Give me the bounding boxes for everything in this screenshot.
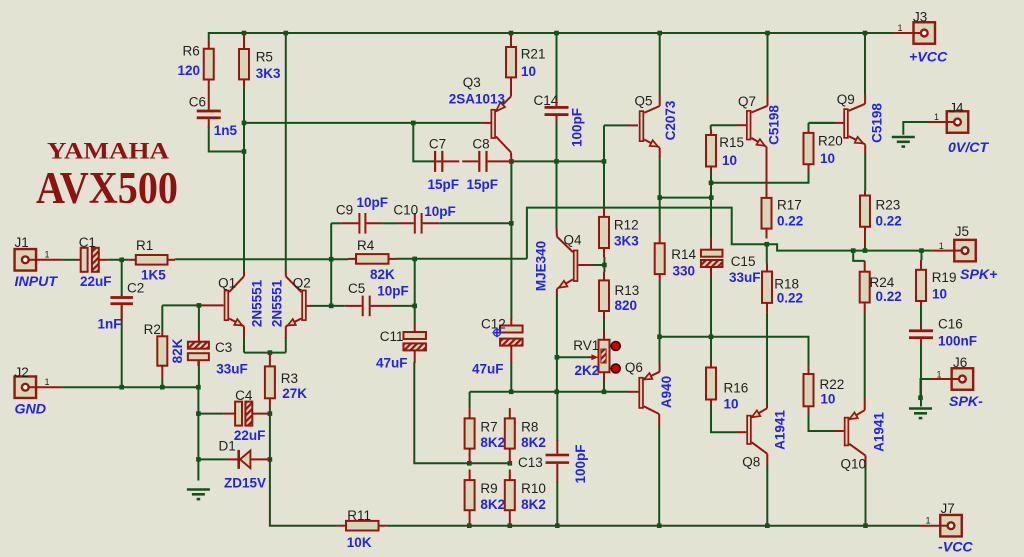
- wire Q4 collector column: [556, 161, 558, 228]
- resistor R24: [860, 261, 870, 314]
- lead Q10 base: [834, 430, 844, 432]
- node junction at 244,151.5: [242, 149, 247, 154]
- lead Q10 emitter top: [864, 398, 866, 410]
- lead Q8 base: [737, 431, 747, 433]
- svg-text:820: 820: [615, 298, 638, 313]
- svg-text:1nF: 1nF: [98, 317, 122, 332]
- wire C9 tap column: [330, 223, 332, 306]
- svg-text:R22: R22: [820, 377, 845, 392]
- wire R23 top to Q9 emitter: [864, 154, 866, 191]
- wire C11 bottom to R7R8 row: [414, 362, 510, 463]
- node junction at 509.8,525.7: [508, 523, 513, 528]
- resistor R16: [706, 362, 716, 406]
- resistor R10: [505, 470, 515, 526]
- node junction at 604,161.4: [602, 159, 607, 164]
- svg-text:A940: A940: [659, 376, 674, 408]
- wire -VCC bus: [387, 525, 919, 527]
- node junction at 711.3,197.6: [709, 195, 714, 200]
- lead Q5 emitter: [659, 148, 661, 157]
- node junction at 244,33: [242, 31, 247, 36]
- capacitor C13: [546, 454, 570, 464]
- lead Q2 collector: [285, 271, 287, 276]
- lead C10: [398, 222, 414, 224]
- svg-text:0.22: 0.22: [777, 214, 803, 229]
- wire Q2 emitter drop: [285, 337, 287, 353]
- capacitor C7: [434, 151, 443, 172]
- node junction at 865,250.6: [863, 248, 868, 253]
- svg-text:1: 1: [926, 516, 931, 526]
- wire R19 to C16: [920, 306, 922, 327]
- svg-text:C2073: C2073: [663, 100, 678, 140]
- wire Q1 emitter drop: [243, 337, 245, 353]
- svg-text:MJE340: MJE340: [534, 241, 549, 291]
- wire C13 top link: [556, 392, 558, 441]
- svg-text:3K3: 3K3: [614, 234, 639, 249]
- svg-text:C2: C2: [127, 280, 144, 295]
- svg-text:8K2: 8K2: [521, 435, 546, 450]
- resistor R9: [465, 470, 475, 526]
- transistor Q8: [747, 408, 767, 454]
- connector J5: [954, 240, 976, 262]
- resistor R11: [338, 521, 387, 531]
- wire R13 to RV1: [603, 319, 605, 333]
- wire J4 link: [903, 122, 928, 135]
- svg-text:Q9: Q9: [837, 92, 855, 107]
- node junction at 469.3,463.3: [467, 461, 472, 466]
- lead Q1 base: [202, 304, 224, 306]
- svg-text:R2: R2: [144, 322, 161, 337]
- wire C1 to R1 with C2 tap: [108, 259, 128, 261]
- ground symbol at D1 node: [187, 490, 210, 500]
- wire RV1 wiper link: [557, 356, 590, 358]
- svg-text:+VCC: +VCC: [909, 49, 948, 65]
- resistor R1: [128, 255, 175, 265]
- svg-text:R7: R7: [480, 420, 497, 435]
- node junction at 766.8,244.2: [765, 242, 770, 247]
- lead J5: [932, 250, 955, 252]
- lead Q9 base: [836, 122, 844, 124]
- lead C5: [345, 305, 362, 307]
- node junction at 604.4,265: [602, 263, 607, 268]
- svg-text:R13: R13: [615, 283, 640, 298]
- node junction at 331.2,305.9: [329, 304, 334, 309]
- wire Q9 base corner: [809, 122, 836, 124]
- svg-text:10pF: 10pF: [424, 204, 456, 219]
- svg-text:Q5: Q5: [635, 94, 653, 109]
- wire RV1 bottom: [603, 381, 605, 392]
- lead J3: [894, 32, 913, 34]
- ground symbol at J4: [892, 137, 915, 147]
- potentiometer RV1: [590, 332, 610, 382]
- wire Q5 base column: [603, 125, 605, 206]
- lead C4: [223, 413, 235, 415]
- svg-text:C7: C7: [429, 136, 446, 151]
- capacitor C9: [358, 213, 366, 234]
- node junction at 865.5,525.7: [863, 523, 868, 528]
- svg-text:82K: 82K: [170, 338, 185, 363]
- node junction at 285.8,33: [284, 31, 289, 36]
- node junction at 269.9,459.4: [268, 457, 273, 462]
- wire Q8 collector to -VCC bus: [766, 464, 768, 525]
- svg-text:SPK-: SPK-: [949, 394, 983, 410]
- wire VAS output row: [527, 208, 921, 259]
- node junction at 198.4,459.4: [196, 457, 201, 462]
- node junction at 162.3,387.2: [160, 385, 165, 390]
- lead Q7 emitter: [766, 147, 768, 193]
- svg-text:A1941: A1941: [872, 412, 887, 452]
- transistor Q9: [844, 104, 865, 145]
- wire R14 bottom to driver row: [659, 282, 661, 337]
- resistor R12: [599, 208, 609, 257]
- capacitor C14: [545, 106, 569, 116]
- svg-text:R21: R21: [521, 47, 546, 62]
- svg-text:10: 10: [932, 286, 947, 301]
- wire J6 link: [921, 379, 931, 398]
- wire C9-C10 mid: [382, 222, 397, 224]
- lead C11: [414, 323, 416, 332]
- wire Q4 base link: [592, 264, 604, 266]
- svg-text:8K2: 8K2: [480, 497, 505, 512]
- lead Q7 collector: [767, 95, 769, 106]
- wire C10 to Miller column: [439, 222, 511, 224]
- wire Q5 base horizontal: [604, 124, 629, 126]
- lead Q3 collector: [510, 152, 512, 161]
- transistor Q6: [639, 372, 659, 414]
- svg-text:0.22: 0.22: [876, 214, 902, 229]
- node junction at 511,33: [509, 31, 514, 36]
- wire R2 corner: [161, 305, 163, 332]
- svg-text:C13: C13: [518, 455, 543, 470]
- svg-text:2K2: 2K2: [575, 363, 600, 378]
- svg-text:33uF: 33uF: [729, 270, 761, 285]
- capacitor C5: [362, 296, 371, 317]
- svg-text:2N5551: 2N5551: [270, 279, 285, 327]
- node junction at 853.2,250.6: [851, 248, 856, 253]
- lead Q10 collector: [865, 456, 867, 467]
- wire Q6 emitter up link: [659, 337, 661, 364]
- transistor Q10: [845, 410, 866, 455]
- svg-text:100pF: 100pF: [573, 444, 588, 483]
- svg-text:GND: GND: [15, 402, 47, 418]
- lead C8: [462, 160, 478, 162]
- node junction at 711,182.8: [709, 181, 714, 186]
- lead Q4 emitter: [556, 289, 558, 295]
- capacitor C16: [909, 329, 933, 339]
- wire +VCC drop to Q2 collector: [285, 33, 287, 272]
- wire Q10 collector to -VCC bus: [865, 466, 867, 526]
- wire input signal row: [62, 259, 77, 261]
- svg-text:R20: R20: [818, 134, 843, 149]
- wire J5 link: [921, 250, 932, 252]
- node junction at 659.5,336.75: [657, 334, 662, 339]
- diode D1 (zener ZD15V): [228, 450, 270, 469]
- node junction at 469.3,525.7: [467, 523, 472, 528]
- wire R16 to Q8 base: [711, 405, 737, 432]
- node junction at 198.4,413.6: [196, 411, 201, 416]
- node junction at 244,122.9: [242, 121, 247, 126]
- wire Miller column (Q3 col to C12): [510, 161, 512, 319]
- svg-text:0.22: 0.22: [777, 290, 803, 305]
- svg-text:SPK+: SPK+: [960, 267, 997, 283]
- svg-text:47uF: 47uF: [472, 362, 504, 377]
- svg-text:R4: R4: [357, 238, 375, 253]
- capacitor C11 (electrolytic): [403, 332, 426, 350]
- wire C2 column: [121, 260, 123, 296]
- wire R23 bottom link: [864, 246, 866, 251]
- svg-text:82K: 82K: [370, 267, 395, 282]
- wire C14 top drop: [556, 33, 558, 101]
- svg-text:C12: C12: [481, 317, 506, 332]
- svg-text:33uF: 33uF: [216, 362, 248, 377]
- svg-text:330: 330: [673, 263, 696, 278]
- connector J7: [940, 515, 962, 537]
- svg-text:Q6: Q6: [625, 360, 643, 375]
- wire Q2 base horizontal: [310, 305, 345, 307]
- svg-text:C15: C15: [731, 254, 756, 269]
- node junction at 414.7,258.9: [412, 257, 417, 262]
- capacitor C8: [478, 151, 487, 172]
- svg-text:C5198: C5198: [870, 103, 885, 143]
- svg-text:R23: R23: [876, 197, 901, 212]
- wire Q9 collector to rail: [864, 33, 866, 95]
- lead Q8 collector: [766, 454, 768, 465]
- svg-text:R3: R3: [281, 371, 298, 386]
- wire R4 to VAS Z-link: [397, 258, 527, 260]
- node junction at 414.7,305.9: [412, 304, 417, 309]
- wire R20 base corner: [809, 122, 836, 124]
- wire R22 to Q10 base: [809, 414, 835, 431]
- wire R7 top corner: [469, 392, 471, 408]
- lead C15: [710, 239, 712, 250]
- svg-text:8K2: 8K2: [480, 435, 505, 450]
- wire R24 to Q10 emitter: [864, 314, 866, 399]
- node junction at 711,336.75: [709, 334, 714, 339]
- lead C1: [78, 259, 81, 261]
- lead Q5 collector: [659, 95, 661, 107]
- svg-text:2SA1013: 2SA1013: [449, 92, 506, 107]
- transistor Q5: [640, 106, 660, 148]
- svg-text:Q4: Q4: [564, 233, 583, 248]
- svg-text:Q7: Q7: [738, 94, 756, 109]
- svg-text:1: 1: [939, 241, 944, 251]
- svg-text:J7: J7: [941, 501, 955, 516]
- svg-text:47uF: 47uF: [376, 355, 408, 370]
- wire GND bus: [62, 386, 198, 388]
- RV1 terminal dot bottom: [611, 364, 620, 373]
- capacitor C15 (electrolytic): [701, 250, 723, 267]
- svg-text:22uF: 22uF: [234, 428, 266, 443]
- lead Q6 emitter top: [659, 364, 661, 372]
- lead Q8 emitter top: [766, 404, 768, 408]
- lead Q7 base: [737, 124, 747, 126]
- svg-text:J5: J5: [955, 224, 969, 239]
- node junction at 198.4,387.2: [196, 385, 201, 390]
- svg-text:10: 10: [722, 153, 737, 168]
- lead C6: [208, 88, 210, 110]
- lead J6: [931, 378, 952, 380]
- svg-text:Q3: Q3: [463, 75, 481, 90]
- svg-text:Q8: Q8: [742, 455, 760, 470]
- svg-text:R11: R11: [347, 508, 371, 523]
- svg-text:R5: R5: [256, 50, 273, 65]
- wire R18 top link: [766, 244, 768, 263]
- resistor R20: [804, 129, 814, 173]
- resistor R18: [762, 264, 772, 313]
- svg-text:1: 1: [934, 112, 939, 122]
- wire Q6 collector to -VCC bus: [658, 425, 660, 526]
- svg-text:J6: J6: [953, 355, 967, 370]
- svg-text:D1: D1: [219, 439, 236, 454]
- svg-text:10: 10: [521, 64, 536, 79]
- wire C7 left leg up to Q3 base line: [413, 123, 433, 161]
- lead Q9 collector: [864, 95, 866, 104]
- node junction at 198.9,305.4: [197, 303, 202, 308]
- svg-text:100nF: 100nF: [938, 334, 977, 349]
- wire C11 top link: [414, 259, 416, 323]
- svg-text:INPUT: INPUT: [15, 274, 59, 290]
- lead C9: [342, 222, 359, 224]
- lead C12: [510, 318, 512, 326]
- svg-text:R16: R16: [724, 380, 749, 395]
- wire emitter join row: [244, 352, 286, 354]
- svg-text:1: 1: [937, 370, 942, 380]
- connector J3: [914, 22, 936, 44]
- lead Q1 collector: [243, 271, 245, 276]
- resistor R5: [239, 34, 249, 88]
- svg-text:J4: J4: [949, 101, 964, 116]
- resistor R3: [265, 353, 275, 407]
- resistor R23: [860, 191, 870, 246]
- resistor R14: [655, 233, 665, 282]
- svg-text:-VCC: -VCC: [938, 540, 973, 553]
- RV1 terminal dot top: [611, 342, 620, 351]
- svg-text:Q2: Q2: [293, 276, 311, 291]
- capacitor C3 (electrolytic): [188, 342, 209, 361]
- node junction at 767.5,33: [765, 31, 770, 36]
- node junction at 659.7,33: [657, 31, 662, 36]
- lead Q4 collector: [556, 227, 558, 237]
- lead J1: [36, 259, 62, 261]
- wire +VCC top rail: [209, 32, 894, 34]
- wire bias column to C15: [710, 198, 712, 239]
- resistor R13: [599, 272, 609, 319]
- lead Q1 emitter: [243, 326, 245, 338]
- wire bias bus: [470, 391, 629, 393]
- svg-text:C10: C10: [393, 202, 418, 217]
- node junction at 121.7,259.8: [119, 258, 124, 263]
- node junction at 659.7,197.6: [657, 195, 662, 200]
- connector J6: [952, 368, 974, 390]
- svg-text:Q10: Q10: [841, 457, 867, 472]
- wire C6 bottom to R5 column: [209, 127, 244, 152]
- node junction at 556.5,161.4: [554, 159, 559, 164]
- svg-text:1K5: 1K5: [141, 268, 166, 283]
- connector J4: [947, 111, 969, 133]
- wire Q3 collector row: [511, 160, 604, 162]
- resistor R2: [157, 332, 167, 377]
- svg-text:3K3: 3K3: [256, 66, 281, 81]
- svg-text:C9: C9: [336, 202, 353, 217]
- wire Q3 base line from R5 column: [244, 122, 481, 124]
- lead Q5 base: [628, 124, 638, 126]
- svg-text:15pF: 15pF: [467, 177, 499, 192]
- lead Q2 base: [307, 305, 311, 307]
- svg-text:C5198: C5198: [767, 105, 782, 145]
- capacitor C2: [110, 296, 133, 305]
- capacitor C10: [414, 213, 423, 234]
- lead C16: [920, 325, 922, 329]
- wire R15 bottom link: [710, 172, 712, 198]
- lead J2: [36, 386, 62, 388]
- node junction at 269.9,413.6: [268, 411, 273, 416]
- wire D1 row left: [198, 458, 228, 460]
- transistor Q3: [491, 96, 511, 152]
- lead Q6 collector: [658, 414, 660, 425]
- wire R24 jog: [853, 251, 865, 261]
- transistor Q1: [225, 276, 244, 326]
- wire R20 top drop: [808, 123, 810, 129]
- connector J1: [15, 249, 37, 270]
- wire GND bus corner down: [197, 387, 199, 480]
- wire Q5 collector to rail: [659, 33, 661, 95]
- wire Q7 base drop to R15: [710, 125, 712, 129]
- node junction at 509.8,463.3: [508, 461, 513, 466]
- svg-text:R1: R1: [136, 238, 153, 253]
- transistor Q4: [557, 237, 578, 289]
- svg-text:C8: C8: [472, 136, 489, 151]
- resistor R15: [706, 130, 716, 172]
- node junction at 331.2,259.2: [329, 257, 334, 262]
- svg-text:AVX500: AVX500: [36, 163, 178, 213]
- wire R19 top link: [921, 251, 923, 260]
- lead J7: [919, 525, 940, 527]
- wire C16 bottom column: [920, 342, 922, 407]
- lead J4: [928, 121, 947, 123]
- svg-text:27K: 27K: [282, 386, 307, 401]
- wire R3 bottom column: [270, 407, 338, 526]
- resistor R22: [804, 366, 814, 414]
- svg-text:C16: C16: [938, 317, 963, 332]
- svg-text:100pF: 100pF: [570, 108, 585, 147]
- svg-text:C11: C11: [380, 329, 404, 344]
- wire Q5 emitter to bias row: [659, 156, 661, 233]
- svg-text:RV1: RV1: [573, 338, 599, 353]
- svg-text:YAMAHA: YAMAHA: [47, 139, 169, 164]
- svg-text:C5: C5: [348, 281, 365, 296]
- node junction at 920.5,397.75: [918, 395, 923, 400]
- node junction at 511.2,391.8: [509, 390, 514, 395]
- svg-text:1: 1: [45, 250, 50, 260]
- svg-text:R18: R18: [774, 277, 799, 292]
- svg-text:120: 120: [178, 63, 201, 78]
- svg-text:R8: R8: [521, 420, 538, 435]
- wire R6 top drop from rail: [208, 32, 210, 40]
- svg-text:8K2: 8K2: [521, 497, 546, 512]
- svg-text:J1: J1: [15, 235, 29, 250]
- resistor R21: [506, 34, 516, 96]
- svg-text:ZD15V: ZD15V: [224, 476, 266, 491]
- resistor R4: [348, 254, 397, 264]
- resistor R8: [505, 408, 515, 463]
- wire C15 bottom to R16: [710, 276, 712, 362]
- wire J3 link: [865, 32, 894, 34]
- wire R12-R13 mid column: [603, 257, 605, 272]
- svg-text:R15: R15: [719, 135, 744, 150]
- wire Q4 emitter column: [556, 294, 558, 392]
- svg-text:10: 10: [820, 151, 835, 166]
- lead Q3 emitter: [510, 86, 512, 96]
- lead Q4 base: [578, 264, 592, 266]
